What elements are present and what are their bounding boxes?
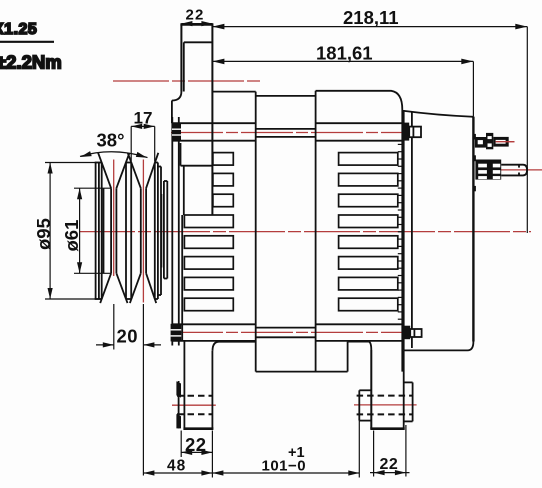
pulley V-groove 2 (top profile) xyxy=(128,153,159,303)
annotation underline xyxy=(0,41,54,43)
rear bracket right edge xyxy=(401,110,403,372)
svg-text:22: 22 xyxy=(185,434,207,455)
inner spacer plate xyxy=(160,194,162,268)
B+ terminal threaded stud xyxy=(501,165,527,176)
svg-text:+1: +1 xyxy=(288,445,305,461)
bottom through-bolt centerline xyxy=(171,331,421,333)
svg-text:181,61: 181,61 xyxy=(316,43,373,64)
dimension 22 (top lug width) xyxy=(181,7,212,27)
rear end housing outline xyxy=(404,111,474,351)
dimension 181,61 xyxy=(212,43,473,65)
dimension 22 (front lug width) xyxy=(181,431,212,458)
dimension 101 +1/-0 xyxy=(212,421,359,478)
top through-bolt shaft xyxy=(256,129,316,137)
dimension 20 (groove spacing) xyxy=(96,304,161,476)
pulley V-groove 1 (top profile) xyxy=(98,153,129,303)
front bottom lug hole centerline xyxy=(172,404,216,406)
svg-text:38°: 38° xyxy=(97,130,125,151)
B+ terminal xyxy=(475,160,527,180)
dimension 17 (pulley groove span) xyxy=(131,109,155,162)
rear bracket underside step xyxy=(348,342,372,372)
svg-text:48: 48 xyxy=(167,458,186,475)
stator top edge xyxy=(256,95,316,97)
stator bottom edge xyxy=(256,371,348,373)
svg-text:±2.2Nm: ±2.2Nm xyxy=(0,52,62,73)
upper terminal (IG/L) xyxy=(475,133,515,149)
main horizontal centerline xyxy=(79,231,531,233)
svg-text:ø95: ø95 xyxy=(33,218,54,250)
spacer ring behind pulley xyxy=(158,167,161,296)
front bracket underside recess xyxy=(213,342,256,351)
front bracket top edge xyxy=(212,91,255,93)
dimension 48 xyxy=(143,458,212,476)
218,11 extension line xyxy=(526,27,528,233)
rear end housing plate xyxy=(404,110,412,350)
rear bottom lug xyxy=(357,350,413,429)
top through-bolt centerline xyxy=(171,132,421,134)
fan plate xyxy=(164,181,167,279)
dimension 218,11 (overall length) xyxy=(212,7,527,29)
housing edge nubs xyxy=(473,134,476,191)
front bracket vent slots (narrow rows) xyxy=(213,153,233,207)
pulley center flange xyxy=(126,163,131,300)
upper terminal centerline xyxy=(495,141,515,143)
rear through-bolt boss band xyxy=(316,123,403,341)
pulley groove 1 centerline xyxy=(113,160,115,277)
rear bracket vent slots xyxy=(339,153,398,311)
stator right edge xyxy=(315,91,317,372)
svg-text:17: 17 xyxy=(134,109,153,128)
front bracket left boss face xyxy=(171,101,173,124)
181,61 extension line xyxy=(472,61,474,116)
pulley left flange plate xyxy=(95,163,102,300)
svg-text:ø61: ø61 xyxy=(61,220,82,252)
top through-bolt rear end xyxy=(402,123,421,141)
front bracket vent slots (wide rows) xyxy=(184,215,233,311)
dimension ø95 (pulley outer diameter) xyxy=(33,163,102,300)
top lug hole centerline xyxy=(113,80,262,82)
pulley right flange plate xyxy=(155,163,158,300)
bottom through-bolt rear end xyxy=(402,326,421,340)
front bracket left edge step xyxy=(180,143,182,166)
B+ terminal centerline xyxy=(488,169,542,171)
dimension 38 degrees (groove angle arc) xyxy=(80,130,148,158)
svg-text:20: 20 xyxy=(117,326,139,347)
stator left edge xyxy=(255,92,257,372)
bottom through-bolt shaft xyxy=(256,328,316,338)
svg-text:218,11: 218,11 xyxy=(343,7,399,28)
front bottom lug xyxy=(176,341,213,429)
shaft collar plate at bracket hub xyxy=(172,117,179,346)
bottom through-bolt head (front, hatched) xyxy=(171,324,182,342)
rear bracket top edge with rounded corner xyxy=(316,91,403,110)
dimension 22 (rear lug width) xyxy=(370,425,410,477)
svg-text:X1.25: X1.25 xyxy=(0,21,37,38)
rear bracket edge vent fins xyxy=(398,144,403,319)
front through-bolt boss band xyxy=(172,123,256,141)
bottom through-bolt boss band (front) xyxy=(172,324,256,341)
top through-bolt head (front, hatched) xyxy=(172,123,181,141)
top mounting lug xyxy=(180,25,213,216)
front bracket nose corner xyxy=(172,92,182,101)
pulley groove 2 centerline xyxy=(142,160,144,303)
front bracket left edge xyxy=(181,215,183,341)
dimension ø61 (groove root diameter) xyxy=(61,188,111,273)
svg-text:22: 22 xyxy=(380,456,399,473)
rear bottom lug hole centerline xyxy=(354,404,417,406)
svg-text:22: 22 xyxy=(186,7,205,24)
